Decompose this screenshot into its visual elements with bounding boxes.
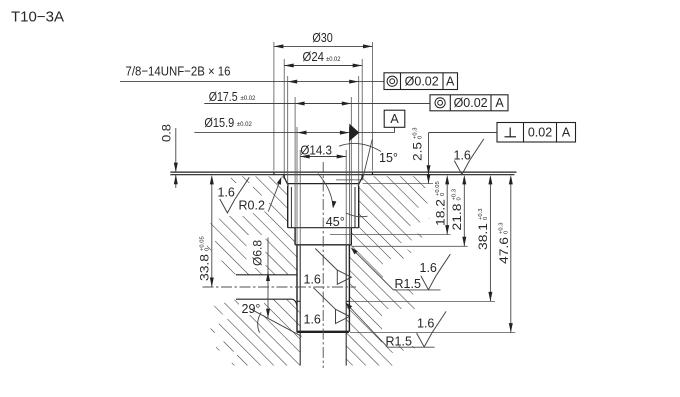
svg-text:±0.02: ±0.02 [237,121,252,128]
dim line d24 [284,64,362,68]
hatched section material [205,176,433,365]
svg-text:1.6: 1.6 [454,149,471,163]
29 deg slant line [251,309,302,336]
svg-text:7/8−14UNF−2B × 16: 7/8−14UNF−2B × 16 [126,64,231,79]
cross hole centerline [203,286,357,288]
finish face right [454,139,484,175]
d24 gland bottom [288,183,359,185]
dim 38.1 [488,175,492,302]
FCF concentricity 1 [384,73,458,90]
ext 21.8 depth [352,245,468,247]
ext 2.5 depth [363,183,433,185]
thread end line [288,227,359,229]
svg-text:33.8: 33.8 [198,254,212,281]
finish bore upper [304,249,352,287]
FCF perpendicularity leader [429,132,498,134]
svg-text:47.6: 47.6 [497,237,511,264]
d15.9 bottom step left [297,300,300,302]
ext 38.1 depth [350,300,495,302]
label 2.5 [411,128,425,161]
label R1.5 upper [395,277,421,291]
ext d14.3 [300,150,346,245]
label 15 deg [379,151,398,165]
svg-text:21.8: 21.8 [450,203,464,230]
finish R1.5 lower [417,311,447,347]
d17.5 bottom step [295,244,351,246]
svg-text:Ø0.02: Ø0.02 [454,96,488,110]
label 29 deg [242,302,261,316]
label 33.8 [198,236,212,281]
svg-text:0.02: 0.02 [528,126,552,140]
ext 18.2 depth [330,234,451,236]
entry chamfer left [283,175,288,185]
svg-text:0: 0 [504,231,510,234]
d15.9 wall left [296,245,298,332]
svg-text:±0.02: ±0.02 [326,56,341,63]
svg-text:38.1: 38.1 [476,223,490,250]
R1.5 lower leader [345,303,434,348]
svg-text:R1.5: R1.5 [395,277,421,291]
spotface d30 right edge [372,172,374,175]
top face line [170,171,516,173]
svg-text:29°: 29° [242,302,261,316]
dim 33.8 [210,175,214,287]
hole step thick line [297,331,349,333]
dim cross hole d6.8 [266,238,270,319]
cross hole bottom line [236,298,293,300]
ext d30 [274,42,373,171]
label R0.2 [239,199,265,213]
ext 47.6 depth [350,332,515,334]
dim 2.5 [427,133,431,184]
thread minor line left [290,187,292,228]
label 0.8 [160,124,174,142]
ext d15.9 [297,127,349,245]
thread dim line with leader [120,80,384,84]
svg-text:0: 0 [204,248,210,251]
svg-text:Ø24: Ø24 [303,49,325,64]
svg-text:Ø15.9: Ø15.9 [204,115,234,130]
spotface bottom line [170,174,514,176]
svg-text:Ø17.5: Ø17.5 [209,89,238,104]
svg-text:0: 0 [483,217,489,220]
thread minor line right [354,187,356,228]
label d15.9 [204,115,252,130]
svg-text:R1.5: R1.5 [386,335,412,349]
d17.5 wall left [294,228,296,245]
svg-text:0.8: 0.8 [160,124,174,142]
svg-text:Ø6.8: Ø6.8 [251,240,265,266]
svg-text:0: 0 [417,136,423,139]
ext 0.8 depth [169,171,172,173]
svg-text:1.6: 1.6 [304,273,321,287]
thread major wall right [358,186,360,228]
label 38.1 [476,209,490,250]
finish bore lower [304,288,350,327]
cross hole top line [236,274,297,276]
dim line d14.3 [300,155,346,159]
label d6.8 cross [251,240,265,266]
label d24 [303,49,341,64]
dim 0.8 [170,128,178,188]
svg-text:15°: 15° [379,151,398,165]
d15.9 wall right [348,245,350,332]
svg-text:A: A [495,96,504,110]
svg-text:1.6: 1.6 [420,261,437,275]
finish R1.5 upper [420,254,451,290]
datum A box [384,110,405,127]
annotation masks [214,183,450,346]
29 deg arc [258,312,262,333]
svg-text:18.2: 18.2 [433,199,447,226]
d14.3 wall left [299,245,301,366]
svg-text:Ø0.02: Ø0.02 [405,75,439,89]
svg-text:0: 0 [440,193,446,196]
label 18.2 [433,181,447,226]
45 deg leader [318,174,336,209]
svg-text:Ø30: Ø30 [312,30,333,45]
svg-text:A: A [390,112,399,126]
svg-text:±0.02: ±0.02 [241,95,256,102]
label 45 deg [326,215,345,229]
R1.5 upper leader [351,248,441,290]
svg-text:2.5: 2.5 [411,142,425,161]
d24 wall left [283,175,285,177]
svg-text:1.6: 1.6 [218,186,235,200]
dim line d15.9 with datum leader [194,127,394,134]
dim 21.8 [462,175,466,246]
vertical centerline [322,162,324,368]
15 deg slant line [336,139,372,180]
ext d17.5 [295,97,351,228]
label 47.6 [497,223,511,264]
label d14.3 [300,143,332,158]
d14.3 wall right [345,245,347,366]
entry chamfer right [358,175,363,185]
d17.5 wall right [350,228,352,245]
ext d24 [284,59,362,174]
R0.2 leader [268,177,281,212]
45 deg arc [346,213,368,217]
FCF perpendicularity [497,123,576,143]
svg-text:R0.2: R0.2 [239,199,265,213]
spotface d30 left edge [273,172,275,175]
datum A triangle [349,124,359,142]
svg-text:1.6: 1.6 [304,313,321,327]
svg-text:T10−3A: T10−3A [11,10,64,26]
d24 wall right [361,175,363,177]
label 21.8 [450,189,464,230]
15 deg arc [339,143,381,151]
FCF concentricity 2 [430,95,508,111]
svg-text:Ø14.3: Ø14.3 [300,143,332,158]
label R1.5 lower [386,335,412,349]
dim line d17.5 with leader [204,102,430,106]
svg-text:1.6: 1.6 [417,317,434,331]
dim 47.6 [509,175,513,333]
svg-text:0: 0 [457,197,463,200]
cross hole corner fillet [293,299,297,306]
label thread [126,64,231,79]
svg-text:45°: 45° [326,215,345,229]
thread major wall left [287,186,289,228]
dim 18.2 [445,175,449,235]
label d17.5 [209,89,256,104]
label d30 [312,30,333,45]
svg-text:A: A [562,126,571,140]
d15.9 bottom step right [346,300,349,302]
svg-text:A: A [446,75,455,89]
dim line d30 [274,44,373,48]
finish face left [218,177,250,213]
ext thread [288,76,359,185]
title T10-3A [11,10,64,26]
